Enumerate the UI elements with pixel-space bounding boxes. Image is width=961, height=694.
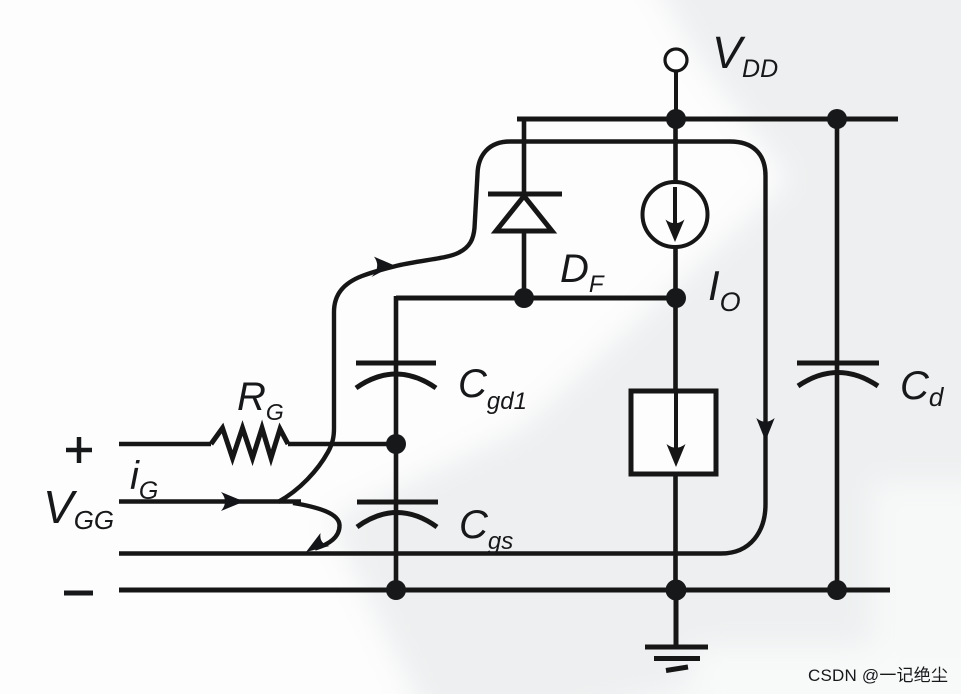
wire top rail	[517, 117, 898, 122]
junction node ground	[666, 580, 687, 601]
diode DF	[488, 194, 562, 231]
junction node source bottom	[386, 580, 406, 600]
junction node drain	[666, 288, 686, 308]
wire Cd branch	[835, 119, 840, 590]
wire drain column	[673, 119, 678, 590]
capacitor Cd	[797, 363, 879, 386]
wire diode branch	[522, 119, 527, 298]
current source IO	[643, 182, 708, 247]
wire iG	[119, 499, 301, 503]
junction node diode DF	[514, 288, 534, 308]
capacitor Cgs	[357, 502, 438, 527]
arrow hook	[306, 533, 330, 552]
svg-text:CSDN @一记绝尘: CSDN @一记绝尘	[808, 666, 948, 685]
junction node Cd top	[827, 109, 847, 129]
resistor RG	[211, 428, 288, 458]
capacitor Cgd1	[356, 363, 436, 388]
wire VDD stem	[674, 71, 678, 119]
junction node gate	[386, 434, 406, 454]
wire current loop path	[119, 142, 766, 554]
switch box	[631, 391, 716, 474]
arrow iG	[221, 492, 244, 511]
label minus	[64, 591, 93, 596]
label plus	[66, 437, 92, 463]
wire Cgs hook path	[293, 503, 340, 549]
wire gate	[288, 442, 396, 446]
junction node Cd bottom	[827, 580, 847, 600]
terminal VDD circle	[665, 49, 687, 71]
wire gate branch	[394, 296, 399, 590]
junction node VDD	[666, 109, 686, 129]
wire RG input	[119, 442, 211, 446]
arrow loop down	[756, 418, 774, 441]
ground	[645, 590, 708, 671]
wire DF node rail	[396, 296, 676, 301]
wire bottom rail	[119, 588, 890, 593]
arrow loop up	[372, 257, 395, 277]
